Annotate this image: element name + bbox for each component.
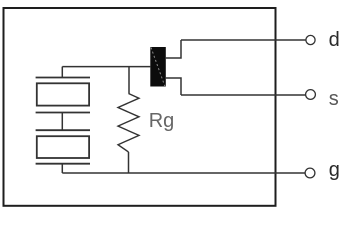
- crystal Y1 bottom plate: [36, 112, 90, 114]
- crystal Y1 top plate: [36, 77, 90, 79]
- wire: resistor bottom lead: [128, 152, 130, 173]
- crystal Y2 top plate: [36, 129, 90, 131]
- wire: crystal Y2 bottom stub: [61, 164, 63, 173]
- terminal s circle: [306, 90, 316, 100]
- svg-text:s: s: [329, 88, 339, 110]
- resistor Rg zigzag: [118, 94, 139, 153]
- wire: gate wire from crystal to transistor: [62, 66, 150, 68]
- crystal Y1 body: [37, 83, 89, 105]
- wire: gate lead to terminal: [62, 172, 305, 174]
- crystal Y2 bottom plate: [36, 163, 90, 165]
- svg-text:Rg: Rg: [149, 110, 175, 132]
- package outline box: [4, 8, 276, 206]
- svg-text:d: d: [329, 29, 340, 51]
- svg-text:g: g: [329, 159, 340, 181]
- wire: resistor top lead: [128, 67, 130, 94]
- wire: crystal Y1 top stub: [61, 67, 63, 78]
- transistor diagonal mark: [151, 48, 165, 87]
- terminal g circle: [305, 168, 315, 178]
- wire: drain lead to terminal: [181, 39, 306, 41]
- wire: stub between crystals: [61, 113, 63, 131]
- wire: source lead to terminal: [181, 94, 306, 96]
- crystal Y2 body: [37, 136, 89, 158]
- transistor body (black rectangle): [150, 47, 166, 87]
- wire: drain stub: [166, 40, 181, 58]
- terminal d circle: [306, 35, 315, 44]
- wire: source stub: [166, 78, 181, 95]
